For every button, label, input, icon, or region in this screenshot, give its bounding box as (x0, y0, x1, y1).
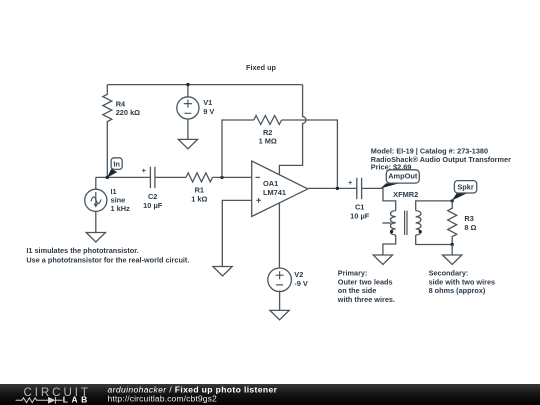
resistor R2 (254, 116, 282, 146)
svg-text:C1: C1 (355, 203, 364, 212)
svg-text:AmpOut: AmpOut (388, 171, 418, 180)
capacitor C1 (348, 178, 370, 221)
primary center tap stub (382, 222, 391, 224)
svg-text:10 µF: 10 µF (350, 211, 370, 220)
svg-text:1 kΩ: 1 kΩ (191, 194, 207, 203)
wire R3 bottom to ground (451, 245, 453, 256)
ground below V1 (178, 139, 197, 149)
node junction speaker top (451, 199, 454, 202)
wire transformer secondary top to speaker node (416, 201, 453, 211)
wire feedback riser to R2 (222, 120, 254, 177)
flag Spkr (452, 181, 477, 201)
svg-text:+: + (348, 178, 353, 187)
wire op-amp plus input to ground (222, 200, 251, 266)
svg-text:-9 V: -9 V (294, 279, 308, 288)
svg-text:Outer two leads: Outer two leads (338, 277, 393, 286)
svg-text:LAB: LAB (63, 395, 91, 405)
resistor R3 (448, 201, 477, 245)
node junction V1 top (186, 83, 189, 86)
core (405, 211, 407, 235)
svg-text:10 µF: 10 µF (143, 201, 163, 210)
svg-text:9 V: 9 V (203, 107, 214, 116)
node junction R4/I1/In (106, 176, 109, 179)
wire supply drop with hop over R2 wire (279, 85, 306, 175)
secondary phase dot (419, 230, 422, 233)
ground below primary (373, 255, 392, 265)
wire op-amp output to C1 (308, 187, 357, 189)
wire transformer secondary bottom to R3 bottom (416, 235, 453, 245)
current source I1 (sine) (85, 177, 130, 232)
footer bar (0, 384, 540, 405)
svg-text:on the side: on the side (338, 286, 377, 295)
wire R1 to op-amp minus input (213, 176, 252, 178)
annotation primary note (337, 269, 395, 304)
wire signal net I1/R4 to C2 (96, 176, 150, 178)
wire transformer primary bottom to ground (383, 235, 396, 255)
secondary winding (416, 211, 421, 235)
wire op-amp V- pin to V2 (278, 203, 280, 268)
svg-text:1 MΩ: 1 MΩ (259, 136, 277, 145)
voltage source V1 (177, 85, 215, 140)
svg-text:side with two wires: side with two wires (429, 277, 496, 286)
node junction output/feedback (336, 187, 339, 190)
primary phase dot (390, 230, 393, 233)
svg-text:LM741: LM741 (263, 188, 286, 197)
node junction R1/R2/opamp (220, 176, 223, 179)
svg-text:Fixed up: Fixed up (246, 63, 277, 72)
svg-text:+: + (142, 166, 147, 175)
annotation model info (371, 146, 511, 171)
ground below V2 (270, 310, 289, 320)
svg-text:Use a phototransistor for the: Use a phototransistor for the real-world… (26, 256, 189, 265)
svg-text:I1 simulates the phototransist: I1 simulates the phototransistor. (26, 246, 138, 255)
ground at op-amp plus input (213, 267, 232, 277)
svg-text:OA1: OA1 (263, 179, 278, 188)
svg-text:C2: C2 (148, 192, 157, 201)
svg-text:http://circuitlab.com/cbt9gs2: http://circuitlab.com/cbt9gs2 (108, 394, 218, 404)
svg-text:8 Ω: 8 Ω (464, 223, 476, 232)
op-amp OA1 LM741 (252, 161, 308, 217)
annotation I1 note (26, 246, 189, 264)
wire C2 to R1 (155, 176, 186, 178)
svg-text:Secondary:: Secondary: (429, 269, 469, 278)
wire top rail from R4 to supply drop (107, 84, 302, 86)
resistor R4 (103, 85, 140, 178)
wire C1 to transformer primary top (362, 188, 396, 210)
svg-text:In: In (113, 160, 120, 169)
svg-text:R1: R1 (195, 186, 204, 195)
resistor R1 (186, 173, 212, 204)
svg-text:220 kΩ: 220 kΩ (116, 108, 140, 117)
svg-text:Primary:: Primary: (338, 269, 368, 278)
flag In (107, 158, 122, 178)
annotation secondary note (429, 269, 496, 296)
wire R2 right to output node (282, 120, 338, 188)
svg-text:V2: V2 (294, 270, 303, 279)
transformer XFMR2 (382, 190, 421, 235)
ground below secondary (443, 255, 462, 265)
svg-text:Spkr: Spkr (457, 183, 474, 192)
CircuitLab logo (16, 386, 91, 405)
flag AmpOut (381, 170, 420, 189)
footer text (108, 385, 278, 404)
voltage source V2 (268, 268, 308, 310)
svg-text:XFMR2: XFMR2 (393, 190, 418, 199)
capacitor C2 (142, 166, 163, 210)
node junction secondary bottom (451, 243, 454, 246)
svg-text:R3: R3 (464, 214, 473, 223)
svg-text:R4: R4 (116, 99, 126, 108)
svg-text:V1: V1 (203, 98, 212, 107)
svg-text:1 kHz: 1 kHz (111, 204, 131, 213)
ground below I1 (86, 233, 105, 243)
primary winding (390, 211, 395, 235)
svg-text:with three wires.: with three wires. (337, 295, 395, 304)
svg-text:8 ohms (approx): 8 ohms (approx) (429, 286, 486, 295)
